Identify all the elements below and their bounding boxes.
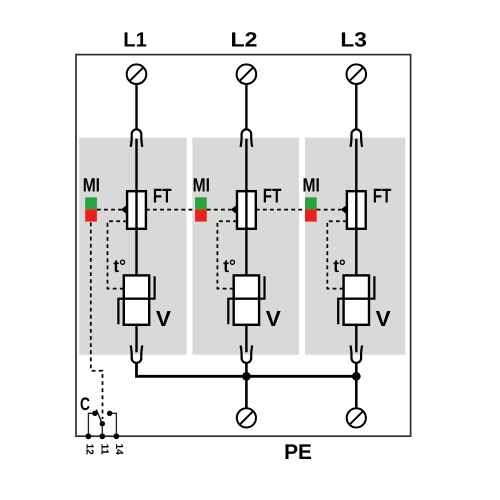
svg-text:11: 11: [98, 443, 109, 455]
status indicator MI1 red field: [85, 209, 97, 221]
svg-text:C: C: [80, 394, 90, 414]
svg-text:L1: L1: [123, 29, 147, 52]
wire module 2 lower plug to PE terminal: [245, 363, 248, 409]
contact C pivot dots: [92, 411, 112, 427]
svg-text:V: V: [156, 306, 171, 331]
plug-in disconnect upper contact (module 2): [241, 129, 253, 147]
junction node: bus / module 3: [352, 372, 361, 381]
svg-text:FT: FT: [263, 186, 282, 208]
svg-text:FT: FT: [373, 186, 392, 208]
varistor V3 with thermal disconnector: [338, 275, 374, 324]
varistor V2 with thermal disconnector: [228, 275, 264, 324]
changeover contact C (posts and lever): [88, 409, 116, 436]
svg-text:FT: FT: [153, 186, 172, 208]
arrow head at FT1: [121, 205, 127, 215]
wire L2 terminal to upper plug contact: [245, 84, 247, 130]
status indicator MI2 green field: [195, 197, 207, 209]
wire upper plug pin through FT3 to varistor: [355, 139, 357, 276]
terminal L3 (screw clamp): [347, 64, 367, 84]
dashed linkage FT2 to MI3: [256, 209, 305, 211]
plug-in disconnect lower contact (module 3): [351, 345, 363, 363]
arrow head at FT2: [231, 205, 237, 215]
terminal L2 (screw clamp): [237, 64, 257, 84]
status indicator MI3 green field: [305, 197, 317, 209]
wire V1 to lower plug pin: [135, 325, 137, 353]
svg-text:t°: t°: [223, 256, 236, 276]
svg-text:12: 12: [83, 443, 94, 455]
plug-in disconnect lower contact (module 1): [131, 345, 143, 363]
svg-text:14: 14: [113, 443, 124, 455]
terminal L1 (screw clamp): [127, 64, 147, 84]
device enclosure outline: [76, 55, 411, 437]
protection module 2 housing (gray): [192, 138, 299, 355]
dashed linkage FT1 to MI2: [146, 209, 195, 211]
plug-in disconnect upper contact (module 3): [351, 129, 363, 147]
wire L3 terminal to upper plug contact: [355, 84, 357, 130]
wire module 3 lower plug to PE terminal: [355, 363, 358, 409]
protection module 1 housing (gray): [79, 138, 186, 355]
svg-text:MI: MI: [83, 176, 100, 197]
dynamic disconnector FT2: [237, 191, 256, 229]
svg-text:t°: t°: [333, 256, 346, 276]
dashed linkage MI3 to FT3: [317, 209, 341, 211]
dashed thermal linkage t&#176; module 3: [327, 221, 347, 288]
svg-text:PE: PE: [284, 440, 312, 464]
wire upper plug pin through FT2 to varistor: [245, 139, 247, 276]
PE terminal 2 (screw clamp): [347, 408, 366, 427]
plug-in disconnect upper contact (module 1): [131, 129, 143, 147]
contact C terminal dots on enclosure edge: [86, 433, 120, 439]
wire module 1 to PE bus (elbow): [137, 363, 357, 377]
status indicator MI3 red field: [305, 209, 317, 221]
dashed linkage MI2 to FT2: [207, 209, 231, 211]
PE terminal 1 (screw clamp): [237, 408, 256, 427]
protection module 3 housing (gray): [305, 138, 405, 355]
dynamic disconnector FT3: [347, 191, 366, 229]
dashed thermal linkage t&#176; module 1: [108, 221, 128, 288]
svg-text:MI: MI: [303, 176, 320, 197]
dashed linkage MI1 to FT1: [97, 209, 121, 211]
wire V2 to lower plug pin: [245, 325, 247, 353]
varistor V1 with thermal disconnector: [118, 275, 154, 324]
svg-text:t°: t°: [113, 256, 126, 276]
svg-text:L2: L2: [231, 29, 258, 52]
dashed linkage MI1 to remote contact C: [91, 223, 103, 420]
status indicator MI1 green field: [85, 197, 97, 209]
dynamic disconnector FT1: [127, 191, 146, 229]
dashed thermal linkage t&#176; module 2: [217, 221, 237, 288]
svg-text:L3: L3: [340, 29, 367, 52]
plug-in disconnect lower contact (module 2): [241, 345, 253, 363]
wire L1 terminal to upper plug contact: [135, 84, 137, 130]
wire V3 to lower plug pin: [355, 325, 357, 353]
svg-text:V: V: [376, 306, 391, 331]
status indicator MI2 red field: [195, 209, 207, 221]
svg-text:V: V: [266, 306, 281, 331]
arrow head at FT3: [341, 205, 347, 215]
wire upper plug pin through FT1 to varistor: [135, 139, 137, 276]
junction node: bus / module 2: [242, 372, 251, 381]
svg-text:MI: MI: [193, 176, 210, 197]
